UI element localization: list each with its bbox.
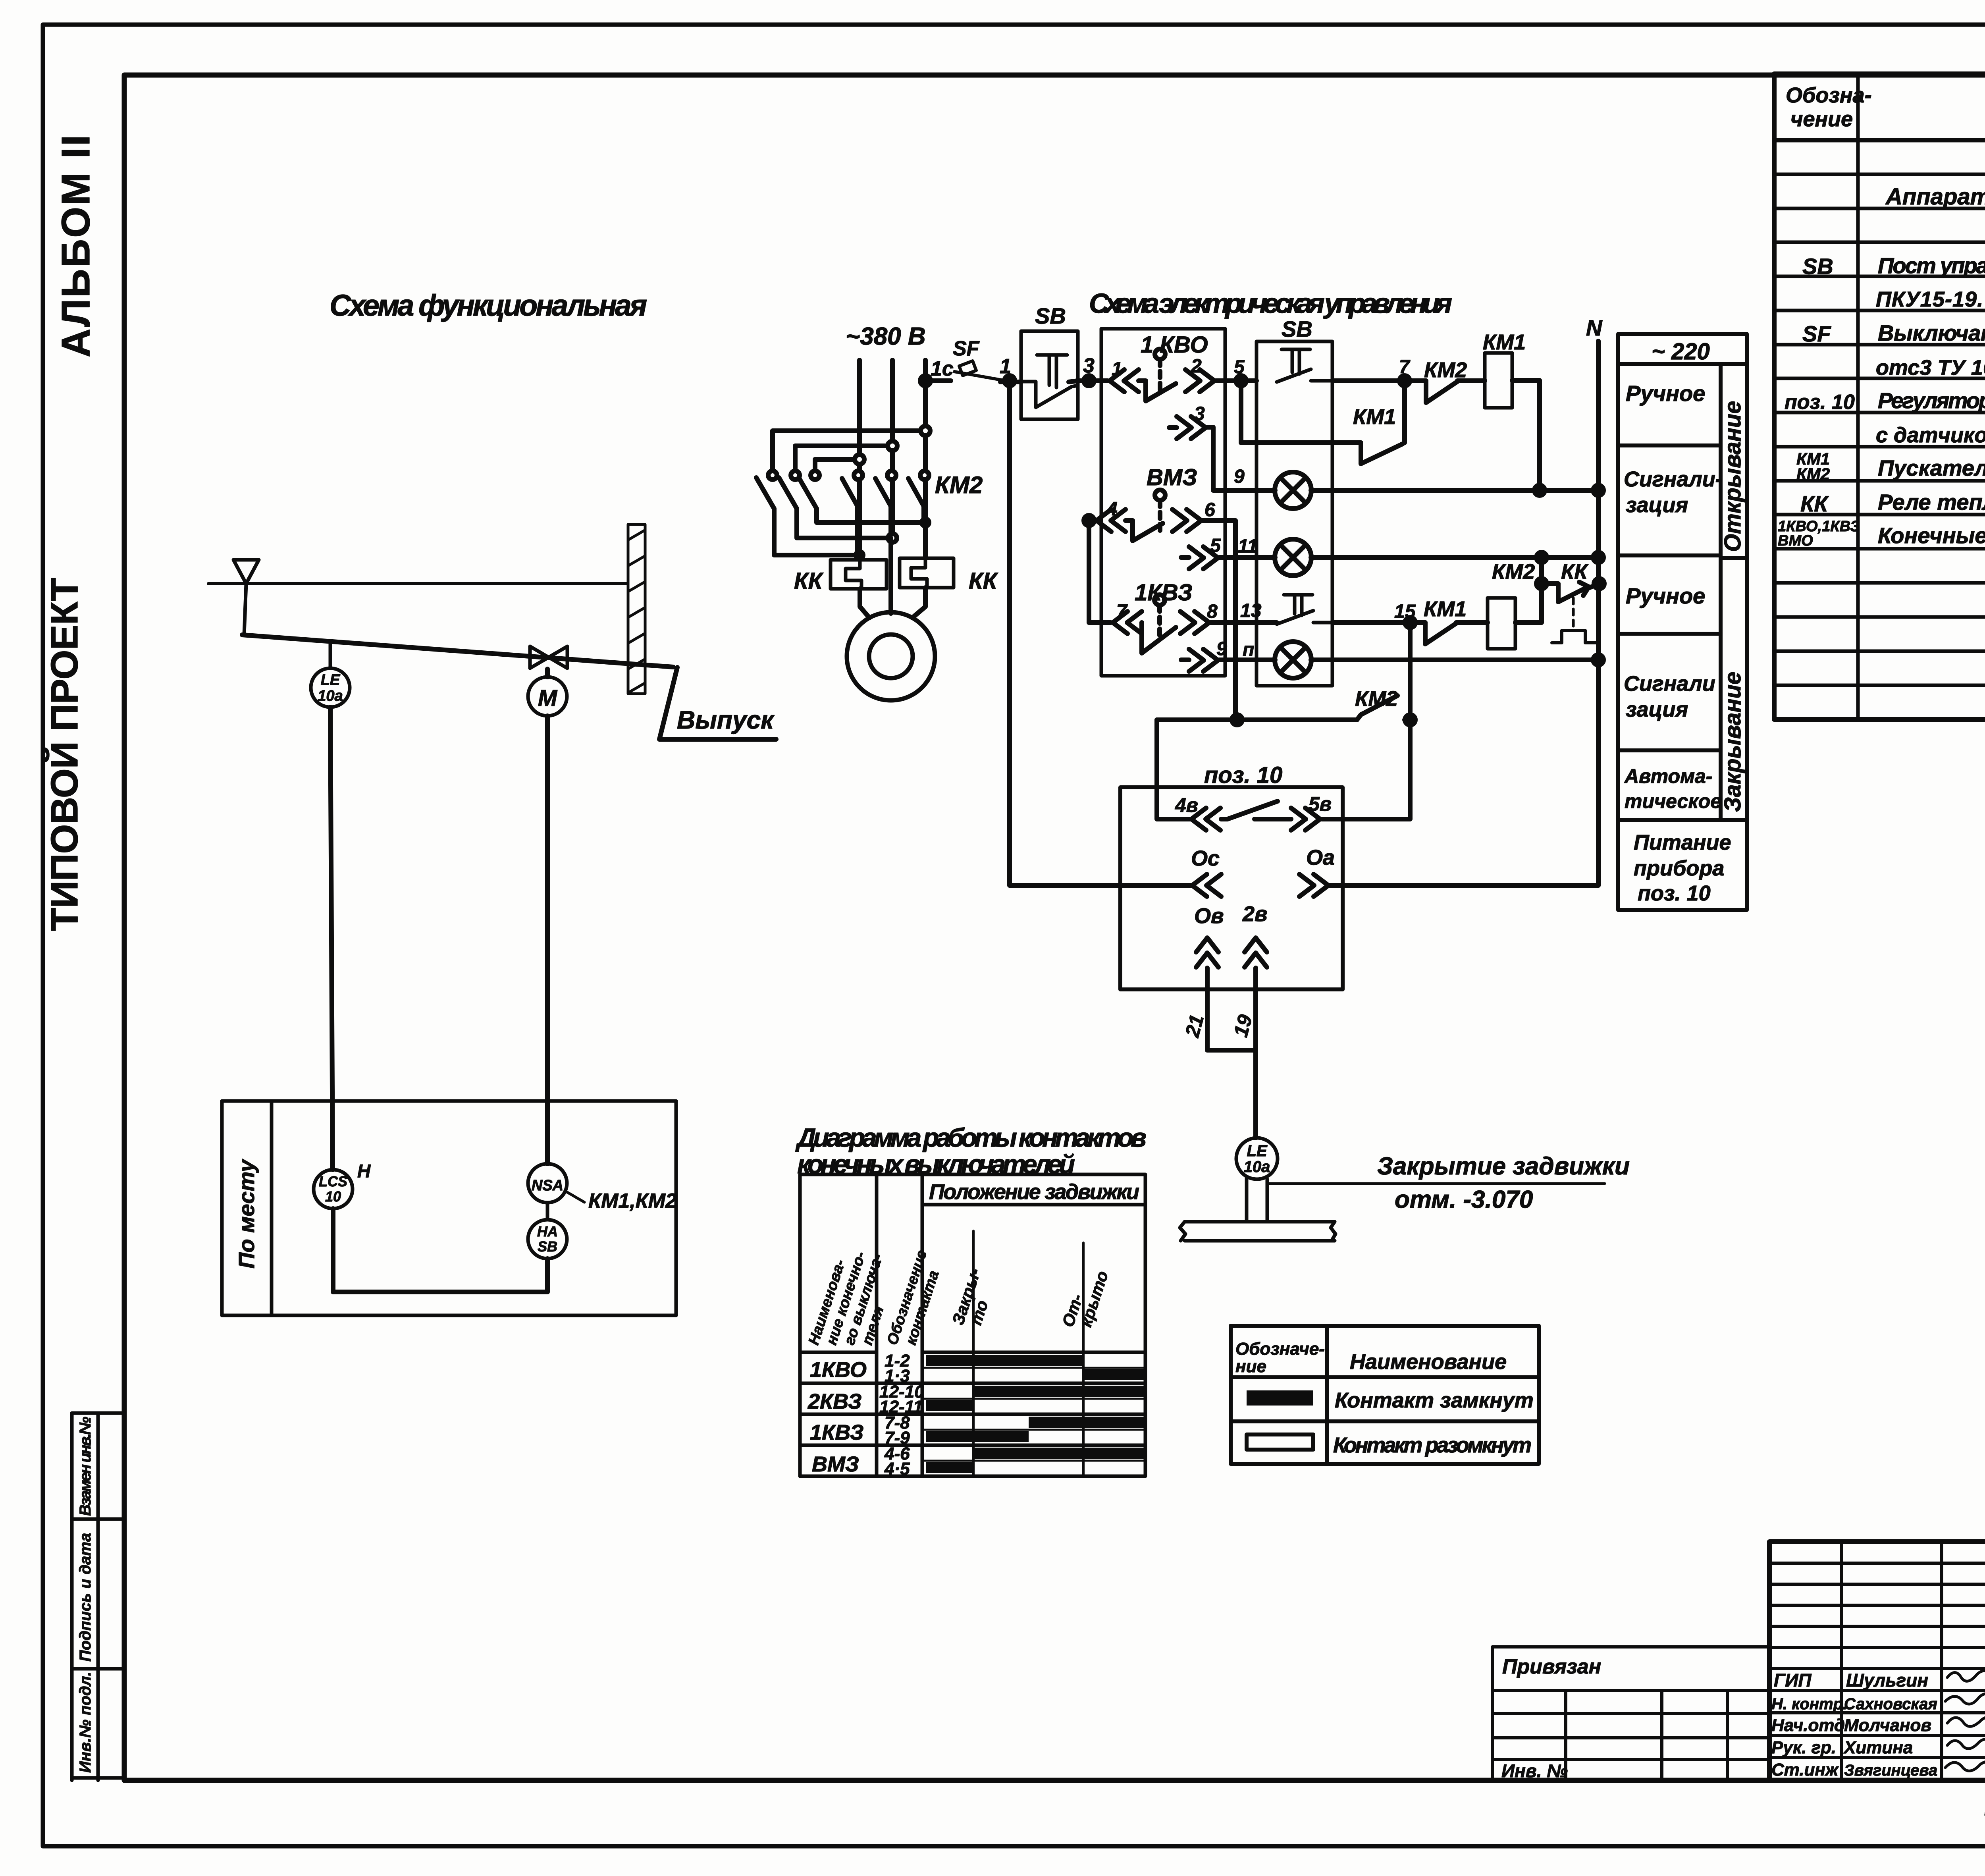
- svg-text:1 КВО: 1 КВО: [1141, 332, 1208, 358]
- svg-text:7: 7: [1399, 357, 1411, 378]
- bars 1КВЗ: [926, 1417, 1144, 1442]
- panel box По месту: [222, 1101, 676, 1315]
- mode cell Ручное 2: [1626, 583, 1705, 608]
- parts row Аппаратура по месту: [1885, 184, 1985, 210]
- breaker SF: [953, 337, 1015, 382]
- svg-text:Открывание: Открывание: [1720, 401, 1746, 552]
- svg-text:4: 4: [1106, 499, 1118, 520]
- label 1 КВО: [1141, 332, 1208, 358]
- svg-text:4·5: 4·5: [884, 1459, 910, 1479]
- label ~380 В: [846, 323, 926, 350]
- svg-text:КМ1: КМ1: [1483, 330, 1526, 354]
- wire LE to LCS: [330, 707, 333, 1170]
- svg-text:КМ1,КМ2: КМ1,КМ2: [588, 1190, 677, 1213]
- svg-text:КМ1: КМ1: [1353, 405, 1396, 429]
- svg-text:Аппаратура по месту: Аппаратура по месту: [1885, 184, 1985, 210]
- wire valve to actuator M: [545, 669, 550, 677]
- legend open label: [1333, 1433, 1532, 1457]
- diagram tick Открыто: [1058, 1243, 1112, 1352]
- svg-text:Наименование: Наименование: [1350, 1350, 1507, 1374]
- node 3: [1083, 354, 1095, 386]
- svg-text:КМ1: КМ1: [1424, 597, 1467, 621]
- row ВМЗ: [812, 1444, 910, 1479]
- svg-text:7: 7: [1116, 601, 1128, 622]
- svg-text:Подпись и дата: Подпись и дата: [77, 1533, 94, 1662]
- svg-text:КК: КК: [969, 568, 998, 594]
- terminal Ос: [1191, 846, 1221, 897]
- svg-text:с датчиком L=0.25 м: с датчиком L=0.25 м: [1876, 423, 1985, 447]
- svg-text:LE: LE: [321, 672, 341, 688]
- contact ВМЗ 4-6: [1084, 490, 1235, 720]
- label 1КВЗ: [1135, 580, 1193, 605]
- row 2КВЗ: [807, 1382, 924, 1417]
- svg-text:11: 11: [1238, 536, 1258, 557]
- motor: [847, 612, 935, 700]
- row 1КВО: [810, 1351, 910, 1386]
- parts row КК: [1800, 484, 1985, 516]
- bars 1КВО: [926, 1355, 1144, 1380]
- label КК right: [969, 568, 998, 594]
- mode cell Питание прибора поз 10: [1634, 831, 1731, 905]
- svg-text:Ручное: Ручное: [1626, 583, 1705, 608]
- svg-text:зация: зация: [1626, 698, 1688, 721]
- thermal element КК left: [831, 560, 887, 589]
- button station SB box 1: [1021, 303, 1078, 419]
- pipe break and label Выпуск: [659, 667, 776, 739]
- wire labels 9 11 13 p: [1234, 466, 1262, 621]
- diagram table grid: [800, 1174, 1145, 1476]
- svg-text:Выключатель АК63-2М; U~500В: Выключатель АК63-2М; U~500В ; Iр 1А: [1878, 320, 1985, 345]
- svg-text:Пост управления кнопочный: Пост управления кнопочный: [1878, 253, 1985, 278]
- wire to КМ2 coil: [1456, 620, 1488, 625]
- svg-text:Привязан: Привязан: [1502, 1655, 1601, 1678]
- svg-text:3: 3: [1083, 354, 1095, 377]
- parts row поз10 датчик: [1876, 423, 1985, 447]
- controller box поз 10: [1120, 787, 1343, 989]
- svg-text:SB: SB: [1802, 254, 1833, 279]
- svg-text:чение: чение: [1790, 107, 1853, 131]
- wire to node 15: [1332, 620, 1425, 625]
- svg-text:Ос: Ос: [1191, 846, 1220, 870]
- diagram rotated header Обозначение контакта: [884, 1248, 942, 1347]
- title Схема функциональная: [330, 289, 647, 322]
- instrument НА SB: [528, 1203, 567, 1259]
- svg-text:Взамен инв.№: Взамен инв.№: [77, 1417, 94, 1516]
- svg-text:Питание: Питание: [1634, 831, 1731, 854]
- svg-text:Хитина: Хитина: [1843, 1738, 1913, 1757]
- motor leads: [860, 538, 925, 618]
- legend header Обозначение: [1235, 1339, 1325, 1376]
- svg-text:10а: 10а: [318, 688, 343, 704]
- node 15: [1394, 601, 1416, 628]
- svg-text:Сахновская: Сахновская: [1844, 1695, 1937, 1713]
- contact КМ2 aux NC: [1424, 358, 1467, 403]
- contact 4в 5в: [1175, 793, 1332, 830]
- svg-text:п: п: [1243, 639, 1254, 660]
- svg-text:10а: 10а: [1244, 1158, 1270, 1176]
- svg-text:Сигнали: Сигнали: [1624, 672, 1715, 696]
- parts row SB type: [1876, 287, 1985, 311]
- diagram tick lines in rows: [973, 1352, 1083, 1476]
- title block frame: [1769, 1542, 1985, 1780]
- label КМ2 main: [935, 472, 983, 498]
- svg-text:SF: SF: [953, 337, 980, 360]
- svg-text:ВМО: ВМО: [1778, 532, 1813, 549]
- svg-text:SB: SB: [1035, 303, 1066, 328]
- svg-text:Звягинцева: Звягинцева: [1844, 1762, 1937, 1779]
- parts row КМ1 КМ2: [1796, 449, 1985, 483]
- instrument LE 10a (field): [311, 642, 350, 707]
- parts table grid: [1774, 74, 1985, 719]
- terminal Оа: [1299, 846, 1335, 897]
- phase wire L1: [857, 360, 862, 555]
- wire to КМ1 coil: [1457, 378, 1485, 383]
- terminal Ов: [1194, 904, 1224, 967]
- signal lamp HL3: [1275, 642, 1598, 678]
- stamp signature squiggles: [1945, 1671, 1985, 1772]
- svg-text:ВМЗ: ВМЗ: [1147, 465, 1197, 490]
- instrument LE 10a (valve pit): [1236, 1138, 1278, 1179]
- svg-text:Ручное: Ручное: [1626, 381, 1705, 406]
- thermal element КК right: [900, 558, 954, 588]
- mode col Открывание: [1720, 401, 1746, 552]
- svg-text:Инв. №: Инв. №: [1501, 1760, 1568, 1781]
- svg-text:Контакт разомкнут: Контакт разомкнут: [1333, 1433, 1532, 1457]
- parts row SB: [1802, 252, 1985, 279]
- svg-text:3: 3: [1194, 403, 1205, 424]
- svg-text:Реле тепловое: Реле тепловое: [1878, 490, 1985, 515]
- svg-text:5: 5: [1210, 535, 1221, 556]
- parts row поз10: [1785, 387, 1985, 414]
- level mark triangle: [233, 560, 259, 634]
- svg-text:АЛЬБОМ II: АЛЬБОМ II: [54, 135, 98, 357]
- svg-text:Сигнали-: Сигнали-: [1624, 467, 1723, 491]
- pipe tee: [1180, 1178, 1336, 1241]
- panel bottom wire: [333, 1209, 547, 1292]
- svg-text:LE: LE: [1247, 1142, 1267, 1160]
- contact 1КВО 1-2: [1101, 349, 1225, 401]
- button SB1 contact: [1021, 355, 1077, 407]
- bottom margin Копировал: [1984, 1797, 1985, 1823]
- arrow 9 output: [1181, 638, 1275, 671]
- diagram half row dividers: [922, 1368, 1145, 1461]
- margin label ТИПОВОЙ ПРОЕКТ: [42, 578, 86, 931]
- wire 19: [1230, 968, 1257, 1138]
- panel label По месту: [234, 1159, 259, 1269]
- svg-text:КК: КК: [794, 568, 824, 594]
- wire КМ1 coil return: [1512, 380, 1540, 490]
- svg-text:КМ2: КМ2: [1796, 465, 1830, 483]
- wire to КМ2 aux contact: [1332, 378, 1426, 383]
- margin cell label Подпись и дата: [77, 1533, 94, 1662]
- margin cell label Инв № подл: [77, 1672, 94, 1773]
- contact КМ1 NC: [1424, 597, 1467, 644]
- diagram tick Закрыто: [948, 1231, 992, 1352]
- svg-text:Н. контр.: Н. контр.: [1771, 1695, 1847, 1713]
- svg-text:6: 6: [1204, 499, 1215, 521]
- wire SF to node 1: [1000, 380, 1021, 384]
- svg-text:поз. 10: поз. 10: [1638, 881, 1711, 905]
- svg-text:отс3 ТУ 16 . 522 . 140 -: отс3 ТУ 16 . 522 . 140 - 78: [1876, 356, 1985, 380]
- signal lamp HL1: [1213, 472, 1598, 509]
- svg-text:Инв.№ подл.: Инв.№ подл.: [77, 1672, 94, 1773]
- instrument NSA: [528, 1164, 567, 1203]
- svg-text:9: 9: [1216, 638, 1227, 659]
- phase wire L3: [923, 360, 928, 558]
- svg-text:Выпуск: Выпуск: [677, 706, 775, 734]
- привязан labels: [1501, 1655, 1601, 1781]
- legend closed label: [1335, 1388, 1534, 1412]
- mode table ~220: [1618, 334, 1747, 910]
- mode cell Ручное 1: [1626, 381, 1705, 406]
- svg-text:15: 15: [1394, 601, 1416, 622]
- svg-text:М: М: [538, 685, 558, 711]
- svg-text:Автома-: Автома-: [1624, 765, 1712, 787]
- svg-text:Положение задвижки: Положение задвижки: [929, 1180, 1139, 1204]
- wire 21: [1181, 968, 1256, 1050]
- svg-text:Шульгин: Шульгин: [1846, 1670, 1928, 1691]
- diagram header Положение задвижки: [929, 1180, 1139, 1204]
- title block stamp grid: [1769, 1542, 1985, 1780]
- svg-text:N: N: [1586, 315, 1603, 340]
- svg-text:ВМЗ: ВМЗ: [812, 1452, 859, 1476]
- sloping suction pipe: [242, 635, 673, 667]
- parts header Обозначение: [1786, 83, 1872, 131]
- svg-text:1: 1: [1000, 355, 1011, 378]
- svg-text:1: 1: [1112, 359, 1122, 380]
- svg-text:1КВЗ: 1КВЗ: [1135, 580, 1193, 605]
- svg-text:2: 2: [1191, 356, 1202, 377]
- svg-text:Обозначе-: Обозначе-: [1235, 1339, 1325, 1359]
- margin table (Взамен инв / Подпись и дата / Инв № подл): [72, 1413, 124, 1780]
- button station SB box 2: [1257, 316, 1332, 686]
- svg-text:Контакт замкнут: Контакт замкнут: [1335, 1388, 1534, 1412]
- water level line: [208, 582, 626, 585]
- svg-text:Ов: Ов: [1194, 904, 1224, 928]
- terminal 2в: [1242, 902, 1268, 967]
- node 1: [1000, 355, 1015, 386]
- svg-text:Ст.инж: Ст.инж: [1771, 1760, 1839, 1780]
- svg-text:Конечные выключатели: Конечные выключатели: [1878, 523, 1985, 548]
- svg-text:8: 8: [1207, 601, 1218, 622]
- svg-text:поз. 10: поз. 10: [1204, 762, 1282, 788]
- svg-text:КМ2: КМ2: [1492, 560, 1535, 584]
- svg-text:LCS: LCS: [319, 1173, 347, 1190]
- legend table: [1231, 1326, 1539, 1464]
- svg-text:КК: КК: [1561, 560, 1589, 584]
- parts row SF: [1802, 320, 1985, 346]
- wire node5: [1225, 357, 1257, 386]
- svg-text:Закрытие задвижки: Закрытие задвижки: [1377, 1153, 1630, 1180]
- node 7: [1399, 357, 1411, 386]
- diagram title: [795, 1123, 1147, 1179]
- svg-text:Обозна-: Обозна-: [1786, 83, 1872, 107]
- diagram rotated header Наименование конечного выключателя: [806, 1249, 887, 1347]
- bars ВМЗ: [926, 1448, 1144, 1473]
- mode col Закрывание: [1720, 672, 1746, 812]
- wire КМ2 loop row: [1157, 715, 1357, 725]
- margin cell label Взамен инв №: [77, 1417, 94, 1516]
- svg-text:поз. 10: поз. 10: [1785, 391, 1855, 414]
- svg-text:КМ2: КМ2: [1355, 687, 1398, 711]
- margin label АЛЬБОМ II: [54, 135, 98, 357]
- svg-text:NSA: NSA: [532, 1177, 563, 1194]
- svg-text:ГИП: ГИП: [1774, 1670, 1812, 1691]
- actuator M circle: [528, 677, 567, 716]
- legend closed sample: [1247, 1390, 1313, 1406]
- label поз 10: [1204, 762, 1282, 788]
- svg-text:Молчанов: Молчанов: [1844, 1716, 1931, 1735]
- valve: [530, 646, 567, 668]
- svg-text:Нач.отд: Нач.отд: [1771, 1716, 1845, 1735]
- contact 1КВЗ 7-8: [1089, 524, 1277, 653]
- svg-text:зация: зация: [1626, 493, 1688, 517]
- svg-text:Регулятор - сигнализатор уров: Регулятор - сигнализатор уровня ЭРСУ-3: [1878, 388, 1985, 413]
- coil КМ1: [1483, 330, 1526, 408]
- label Закрытие задвижки: [1267, 1153, 1630, 1213]
- svg-text:прибора: прибора: [1634, 856, 1724, 880]
- svg-text:SB: SB: [538, 1238, 557, 1255]
- svg-text:ТИПОВОЙ ПРОЕКТ: ТИПОВОЙ ПРОЕКТ: [42, 578, 86, 931]
- leader КМ1,КМ2: [565, 1190, 677, 1213]
- svg-text:Закрывание: Закрывание: [1720, 672, 1746, 812]
- svg-text:Рук. гр.: Рук. гр.: [1771, 1738, 1836, 1757]
- left control bus wire: [1010, 385, 1191, 885]
- mode cell Автоматическое: [1624, 765, 1721, 812]
- svg-text:ние: ние: [1235, 1357, 1266, 1376]
- svg-text:НА: НА: [537, 1223, 558, 1240]
- svg-text:SB: SB: [1282, 316, 1312, 341]
- contact КМ2 poz10: [1355, 687, 1410, 720]
- signal lamp HL2: [1275, 539, 1598, 576]
- label КК left: [794, 568, 824, 594]
- svg-text:5: 5: [1234, 357, 1245, 378]
- stamp signatures: [1771, 1670, 1937, 1780]
- wire left loop down to 4v: [1157, 720, 1190, 819]
- svg-text:тическое: тическое: [1625, 790, 1721, 812]
- wire SB1 to node 3: [1069, 381, 1101, 382]
- legend header Наименование: [1350, 1350, 1507, 1374]
- limit switch box: [1101, 329, 1225, 676]
- svg-text:1с: 1с: [931, 357, 954, 380]
- arrow 5 output: [1181, 535, 1275, 569]
- привязан table: [1492, 1647, 1769, 1780]
- mode cell Сигнализация 1: [1624, 467, 1723, 517]
- parts row SF type: [1876, 356, 1985, 380]
- phase wire L2: [890, 360, 895, 538]
- parts row конечные выключатели: [1778, 517, 1985, 550]
- svg-text:10: 10: [325, 1188, 341, 1205]
- svg-text:КК: КК: [1800, 491, 1829, 516]
- svg-text:По месту: По месту: [234, 1159, 259, 1269]
- svg-text:5в: 5в: [1309, 793, 1332, 815]
- mode label ~220: [1652, 339, 1710, 364]
- row 1КВЗ: [810, 1413, 910, 1448]
- svg-text:ПКУ15-19. 231 - 40 У3 ТУ16: ПКУ15-19. 231 - 40 У3 ТУ16. 526. 333-74: [1876, 287, 1985, 311]
- contactor КМ2 main contacts block: [756, 426, 930, 559]
- svg-text:4в: 4в: [1175, 794, 1198, 816]
- svg-text:1КВО: 1КВО: [810, 1358, 867, 1382]
- instrument LCS 10: [314, 1161, 371, 1209]
- svg-text:отм. -3.070: отм. -3.070: [1395, 1186, 1533, 1213]
- svg-text:Диаграмма работы контактов: Диаграмма работы контактов: [795, 1123, 1147, 1152]
- svg-text:Н: Н: [357, 1161, 371, 1181]
- bars 2КВЗ: [926, 1386, 1144, 1411]
- label ВМЗ: [1147, 465, 1197, 490]
- wall sleeve hatched: [628, 524, 645, 694]
- svg-text:13: 13: [1240, 600, 1262, 621]
- title Схема электрическая управления: [1089, 288, 1452, 319]
- svg-text:19: 19: [1230, 1012, 1257, 1039]
- svg-text:2КВЗ: 2КВЗ: [807, 1390, 862, 1413]
- svg-text:Пускатель магнитный: Пускатель магнитный: [1878, 455, 1985, 480]
- legend open sample: [1247, 1434, 1313, 1450]
- svg-text:Схема функциональная: Схема функциональная: [330, 289, 647, 322]
- mode cell Сигнализация 2: [1624, 672, 1715, 721]
- neutral bus N: [1330, 315, 1603, 885]
- button SB2 close T: [1277, 595, 1332, 624]
- thermal contact КК: [1515, 552, 1604, 643]
- svg-text:1КВЗ: 1КВЗ: [810, 1421, 864, 1444]
- self hold contact КМ1: [1241, 385, 1405, 464]
- svg-text:Схема электрическая управления: Схема электрическая управления: [1089, 288, 1452, 319]
- svg-text:~ 220: ~ 220: [1652, 339, 1710, 364]
- svg-text:Оа: Оа: [1306, 846, 1335, 870]
- arrow 3 output: [1169, 403, 1213, 488]
- svg-text:~380 В: ~380 В: [846, 323, 926, 350]
- svg-text:SF: SF: [1802, 321, 1831, 346]
- wire tap 1c from phase L3: [920, 357, 954, 386]
- wire M to NSA: [545, 716, 550, 1164]
- svg-text:2в: 2в: [1242, 902, 1268, 926]
- wire node15 down to 5v: [1322, 627, 1415, 819]
- svg-text:КМ2: КМ2: [935, 472, 983, 498]
- button SB2 open T: [1277, 349, 1332, 382]
- coil КМ2: [1488, 560, 1535, 649]
- svg-text:21: 21: [1181, 1012, 1208, 1040]
- svg-text:9: 9: [1234, 466, 1245, 487]
